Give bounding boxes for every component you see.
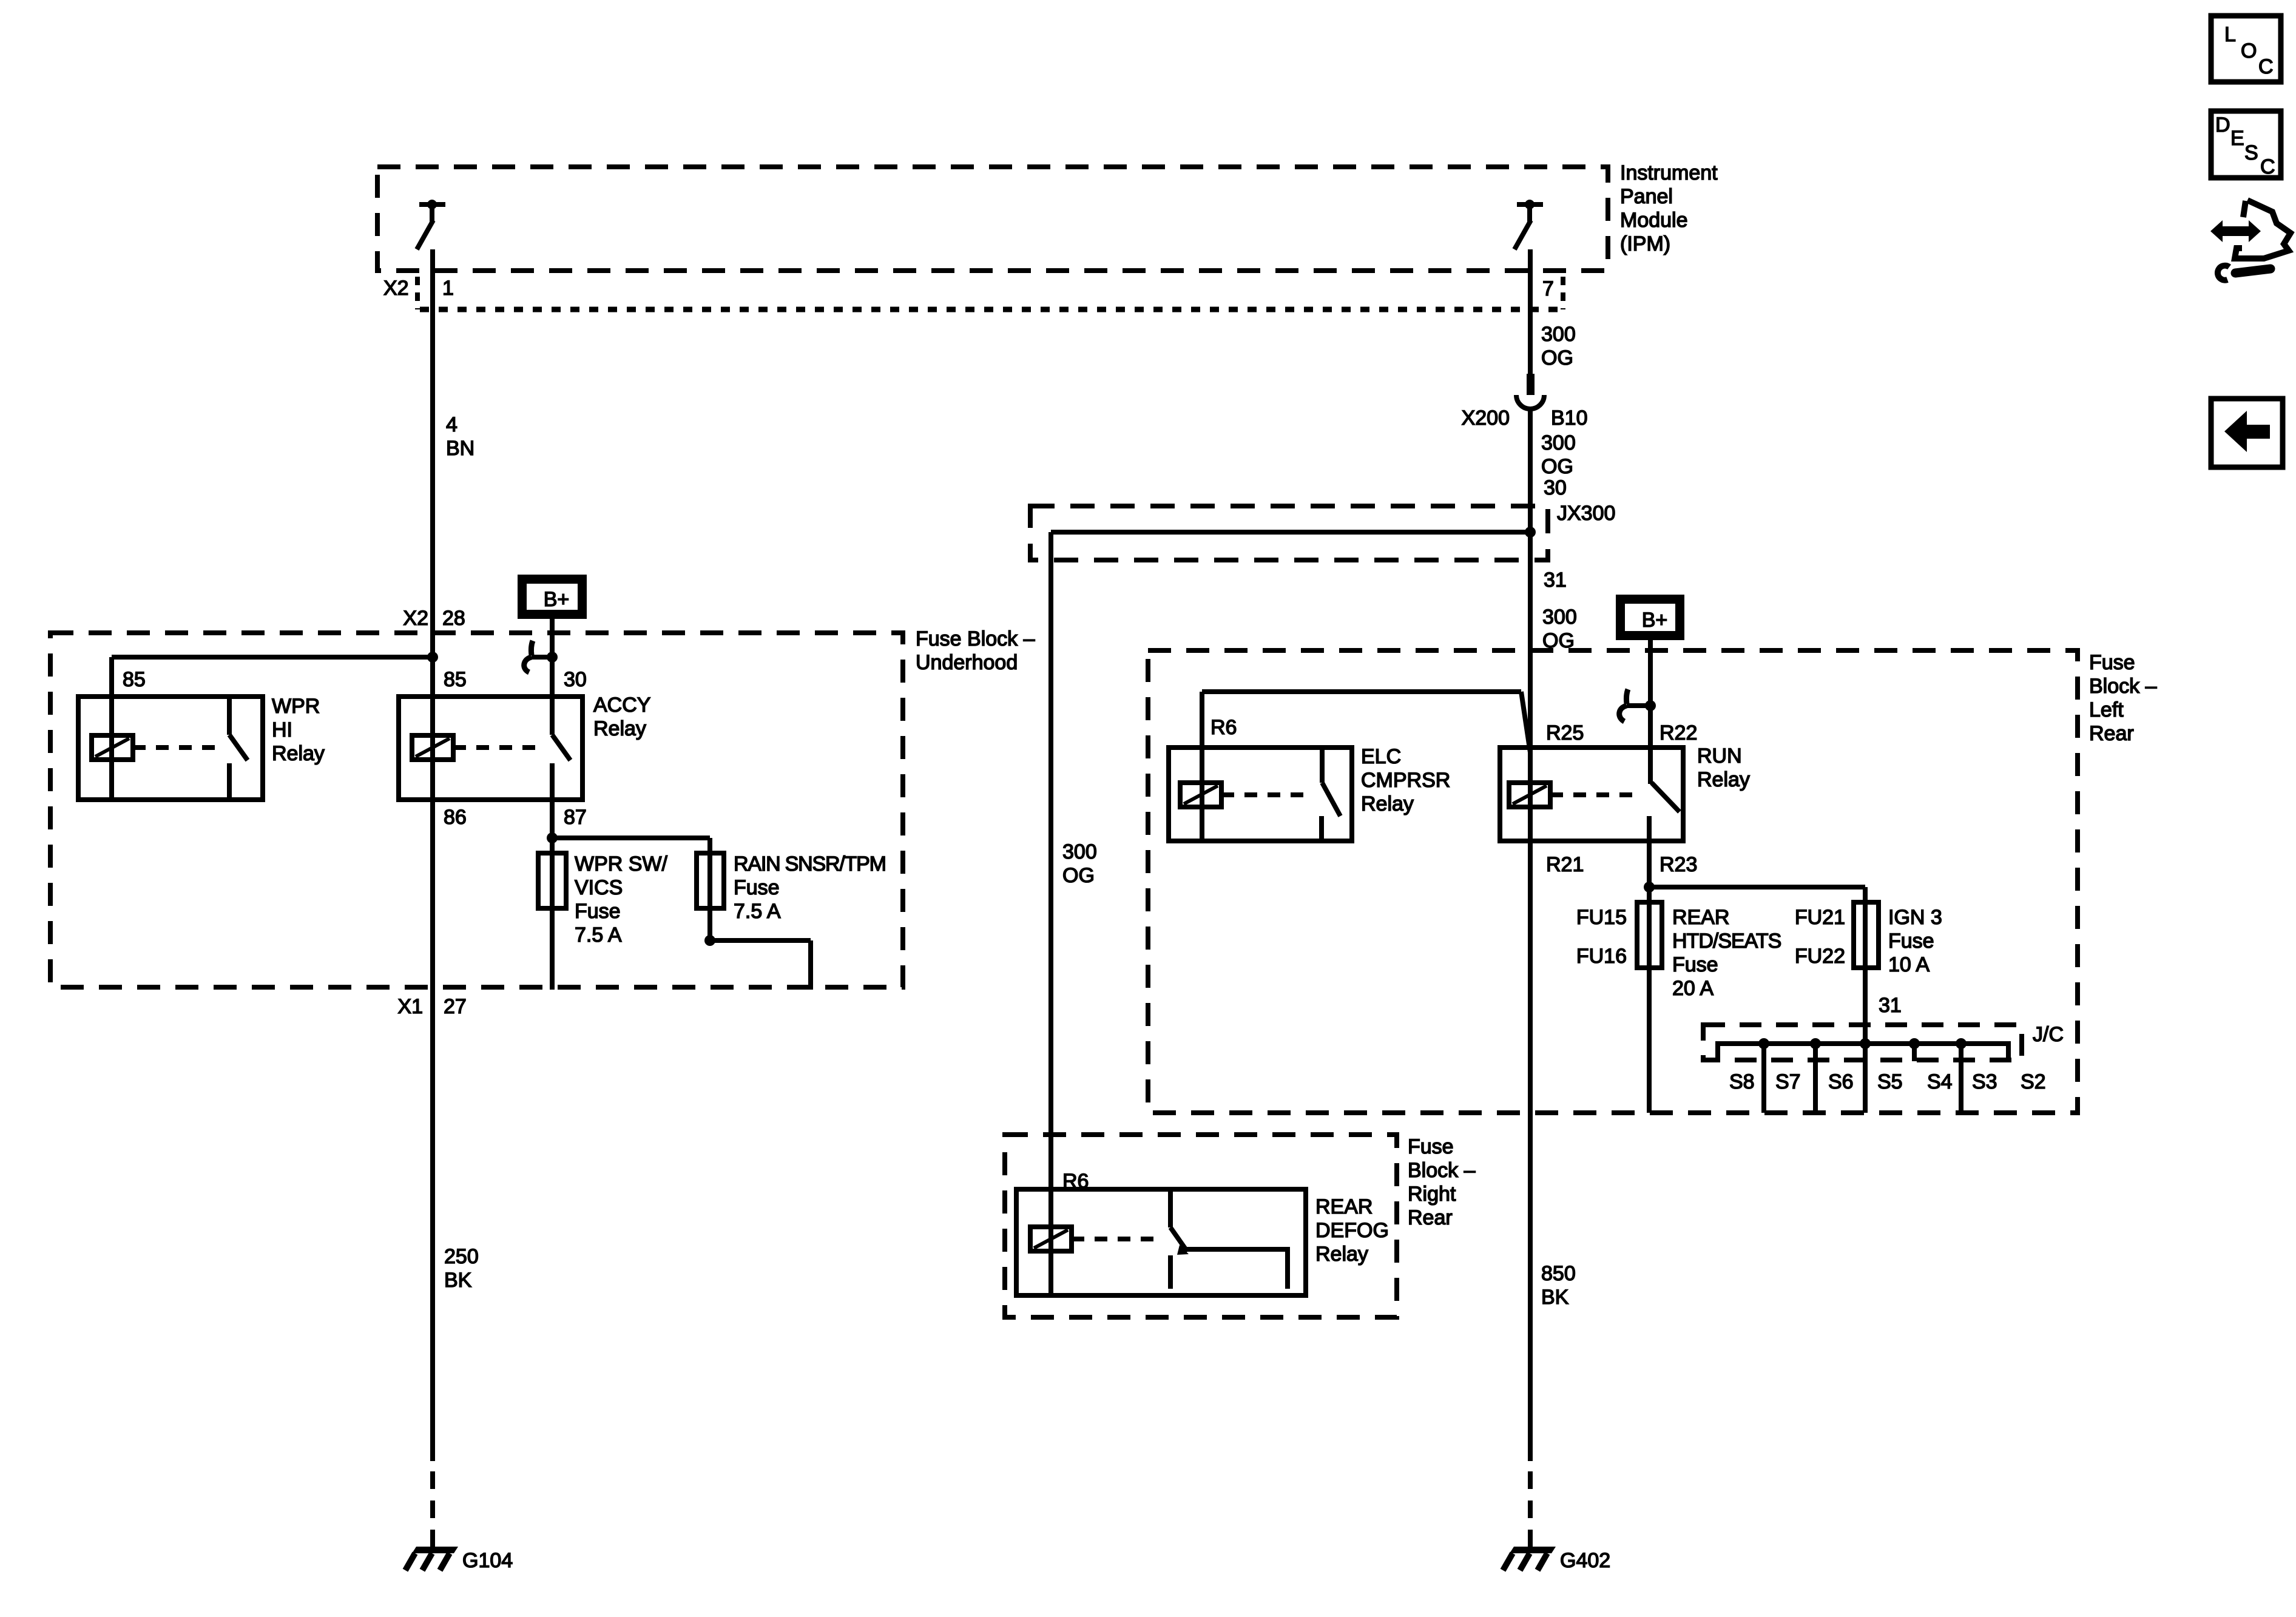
- svg-text:WPR SW/: WPR SW/: [575, 852, 668, 876]
- wire from B+ to RUN relay R22: [1648, 640, 1653, 784]
- fuse block box Fuse Block - Left Rear: [1148, 650, 2078, 1113]
- wire S8/S7 drop: [1761, 1044, 1766, 1113]
- svg-text:S4: S4: [1927, 1070, 1953, 1093]
- fuse REAR HTD/SEATS 20 A: [1637, 902, 1662, 968]
- label Instrument Panel Module (IPM): [1620, 161, 1718, 255]
- svg-text:27: 27: [444, 995, 467, 1018]
- ground G402: [1503, 1547, 1610, 1572]
- svg-text:O: O: [2241, 39, 2257, 62]
- svg-text:FU22: FU22: [1795, 945, 1845, 968]
- svg-text:REAR: REAR: [1672, 906, 1729, 929]
- svg-text:31: 31: [1879, 994, 1902, 1017]
- label WPR HI Relay: [272, 695, 325, 765]
- svg-text:Relay: Relay: [1697, 768, 1750, 791]
- label Fuse Block - Right Rear: [1408, 1135, 1476, 1229]
- junction node below RAIN fuse: [704, 935, 715, 946]
- svg-text:X2: X2: [383, 277, 409, 300]
- label REAR DEFOG Relay: [1315, 1195, 1389, 1266]
- circuit breaker hook symbol (left): [524, 641, 550, 672]
- svg-text:OG: OG: [1541, 346, 1573, 370]
- svg-text:S: S: [2244, 141, 2258, 164]
- svg-text:S7: S7: [1775, 1070, 1801, 1093]
- svg-text:B10: B10: [1551, 407, 1588, 430]
- junction node in JX300: [1525, 527, 1536, 538]
- svg-text:R25: R25: [1546, 721, 1584, 744]
- icon box LOC: [2211, 16, 2281, 82]
- svg-text:30: 30: [1544, 476, 1567, 499]
- svg-text:Right: Right: [1408, 1183, 1456, 1206]
- fuse block box Fuse Block - Underhood: [50, 633, 903, 987]
- svg-text:Panel: Panel: [1620, 185, 1673, 208]
- svg-text:S5: S5: [1877, 1070, 1903, 1093]
- svg-text:28: 28: [442, 607, 465, 630]
- svg-text:300: 300: [1062, 840, 1097, 863]
- wire 300 OG (right vertical main, from IPM pin 7): [1528, 249, 1533, 1549]
- svg-text:S3: S3: [1972, 1070, 1997, 1093]
- ground G104: [405, 1547, 513, 1572]
- junction node S7/S6: [1810, 1038, 1821, 1049]
- junction node on B+ wire: [547, 652, 558, 663]
- svg-text:VICS: VICS: [575, 876, 623, 899]
- bus bar inside J/C: [1718, 1044, 2008, 1062]
- svg-text:7.5 A: 7.5 A: [575, 923, 622, 947]
- svg-text:85: 85: [123, 668, 146, 691]
- svg-text:R22: R22: [1660, 721, 1697, 744]
- wire branch to RAIN SNSR fuse: [552, 838, 710, 940]
- junction node at pin 87: [547, 832, 558, 843]
- svg-text:4: 4: [446, 413, 458, 436]
- svg-text:10 A: 10 A: [1888, 953, 1930, 976]
- svg-text:Block –: Block –: [1408, 1159, 1476, 1182]
- svg-text:30: 30: [564, 668, 587, 691]
- svg-text:C: C: [2260, 155, 2275, 178]
- relay ACCY Relay: [399, 697, 582, 800]
- svg-text:IGN 3: IGN 3: [1888, 906, 1942, 929]
- svg-text:Block –: Block –: [2089, 675, 2157, 698]
- svg-text:E: E: [2230, 127, 2244, 150]
- svg-text:Instrument: Instrument: [1620, 161, 1718, 184]
- svg-text:G104: G104: [462, 1549, 513, 1572]
- svg-text:1: 1: [442, 277, 454, 300]
- svg-text:Relay: Relay: [1315, 1243, 1368, 1266]
- label 250 BK: [444, 1245, 479, 1292]
- junction block J/C: [1703, 1025, 2022, 1060]
- svg-text:HI: HI: [272, 718, 292, 741]
- wire S5/S4 short drop: [1912, 1044, 1917, 1061]
- svg-text:X200: X200: [1462, 407, 1510, 430]
- svg-text:85: 85: [444, 668, 467, 691]
- svg-text:31: 31: [1544, 569, 1567, 592]
- wire jog from RAIN fuse to fuse block edge: [710, 940, 811, 990]
- label WPR SW/VICS Fuse 7.5 A: [575, 852, 668, 947]
- svg-text:Fuse: Fuse: [734, 876, 780, 899]
- junction node S8/S7: [1758, 1038, 1769, 1049]
- svg-text:FU21: FU21: [1795, 906, 1845, 929]
- label REAR HTD/SEATS Fuse 20 A: [1672, 906, 1781, 1000]
- wire S4/S3 drop: [1959, 1044, 1963, 1113]
- svg-text:Relay: Relay: [593, 717, 646, 740]
- svg-text:Relay: Relay: [1361, 792, 1414, 815]
- svg-text:JX300: JX300: [1557, 502, 1615, 525]
- fuse IGN 3 10 A: [1854, 902, 1879, 968]
- svg-text:Fuse: Fuse: [2089, 651, 2135, 674]
- svg-text:R23: R23: [1660, 853, 1697, 876]
- wire branch inside JX300 to 300 OG left drop: [1051, 532, 1530, 1295]
- label Fuse Block - Underhood: [916, 627, 1035, 674]
- wire S7/S6 drop: [1813, 1044, 1818, 1113]
- svg-text:S8: S8: [1729, 1070, 1755, 1093]
- svg-text:BK: BK: [444, 1269, 472, 1292]
- junction block JX300: [1030, 506, 1548, 560]
- svg-text:Underhood: Underhood: [916, 651, 1018, 674]
- junction node S6/S5: [1860, 1038, 1871, 1049]
- wire RUN R23 down to fuses: [1647, 841, 1652, 1113]
- svg-text:(IPM): (IPM): [1620, 232, 1670, 255]
- svg-text:Fuse: Fuse: [1672, 953, 1718, 976]
- svg-text:CMPRSR: CMPRSR: [1361, 769, 1450, 792]
- svg-text:7: 7: [1542, 277, 1554, 300]
- connector separator dash X2|1: [415, 277, 420, 309]
- svg-text:S6: S6: [1828, 1070, 1854, 1093]
- svg-text:87: 87: [564, 806, 587, 829]
- icon repair instructions (arrow and wrench): [2210, 200, 2291, 280]
- fuse WPR SW/VICS 7.5 A: [538, 853, 566, 908]
- relay REAR DEFOG Relay: [1016, 1189, 1306, 1295]
- fuse block box Fuse Block - Right Rear: [1005, 1135, 1397, 1317]
- svg-text:RUN: RUN: [1697, 744, 1742, 768]
- svg-text:ELC: ELC: [1361, 745, 1401, 768]
- svg-text:300: 300: [1542, 606, 1577, 629]
- svg-text:20 A: 20 A: [1672, 977, 1714, 1000]
- junction node at R23: [1644, 882, 1655, 893]
- label ELC CMPRSR Relay: [1361, 745, 1450, 815]
- svg-text:C: C: [2258, 55, 2274, 78]
- junction node on B+ wire (right): [1645, 700, 1656, 711]
- relay ELC CMPRSR Relay: [1169, 748, 1352, 841]
- svg-text:D: D: [2215, 113, 2230, 137]
- power symbol B+ (left): [518, 575, 587, 619]
- svg-text:B+: B+: [544, 588, 570, 611]
- svg-text:G402: G402: [1560, 1549, 1610, 1572]
- fuse RAIN SNSR/TPM 7.5 A: [697, 853, 724, 908]
- svg-text:Relay: Relay: [272, 742, 325, 765]
- svg-text:Rear: Rear: [1408, 1206, 1453, 1229]
- label IGN 3 Fuse 10 A: [1888, 906, 1942, 976]
- svg-text:250: 250: [444, 1245, 479, 1268]
- svg-text:300: 300: [1541, 323, 1576, 346]
- icon box DESC: [2211, 111, 2281, 178]
- connector row dotted line below IPM: [420, 307, 1563, 312]
- wire branch to IGN3 fuse: [1649, 887, 1865, 1113]
- label Fuse Block - Left Rear: [2089, 651, 2157, 745]
- svg-text:FU16: FU16: [1576, 945, 1627, 968]
- wire branch to WPR HI relay coil: [112, 657, 433, 800]
- svg-text:7.5 A: 7.5 A: [734, 900, 781, 923]
- svg-text:S2: S2: [2021, 1070, 2046, 1093]
- svg-text:Fuse: Fuse: [1408, 1135, 1454, 1158]
- svg-text:J/C: J/C: [2033, 1023, 2064, 1046]
- svg-text:ACCY: ACCY: [593, 694, 650, 717]
- wire from B+ to ACCY relay pin 30: [550, 619, 555, 735]
- wire R6 branch from ELC coil to RUN R25: [1202, 692, 1530, 840]
- junction node S5/S4: [1909, 1038, 1920, 1049]
- junction node at 85 branch: [427, 652, 438, 663]
- svg-text:Left: Left: [2089, 698, 2124, 721]
- label 850 BK: [1541, 1262, 1576, 1309]
- svg-text:X1: X1: [397, 995, 423, 1018]
- svg-text:Fuse: Fuse: [575, 900, 621, 923]
- svg-text:Fuse Block –: Fuse Block –: [916, 627, 1035, 650]
- svg-text:Rear: Rear: [2089, 722, 2134, 745]
- svg-text:DEFOG: DEFOG: [1315, 1219, 1389, 1242]
- icon box back arrow: [2211, 399, 2283, 467]
- wire 4 BN (left vertical main): [430, 249, 435, 1549]
- circuit breaker hook symbol (right): [1619, 689, 1647, 721]
- svg-text:B+: B+: [1642, 609, 1668, 632]
- junction node S4/S3: [1956, 1038, 1967, 1049]
- svg-text:300: 300: [1541, 431, 1576, 454]
- connector X200 B10: [1516, 374, 1544, 409]
- svg-text:FU15: FU15: [1576, 906, 1627, 929]
- svg-text:Module: Module: [1620, 209, 1688, 232]
- switch inside IPM left (output driver): [417, 200, 445, 249]
- power symbol B+ (right): [1616, 595, 1684, 640]
- label 300 OG (below JX300): [1542, 606, 1577, 652]
- label 4 BN: [446, 413, 474, 460]
- svg-text:86: 86: [444, 806, 467, 829]
- svg-text:X2: X2: [403, 607, 428, 630]
- svg-text:BK: BK: [1541, 1286, 1569, 1309]
- svg-text:RAIN SNSR/TPM: RAIN SNSR/TPM: [734, 852, 886, 876]
- switch inside IPM right (output driver): [1514, 200, 1543, 249]
- svg-text:L: L: [2224, 23, 2236, 46]
- connector separator dash right of 7: [1561, 277, 1565, 309]
- module box Instrument Panel Module (IPM): [377, 167, 1608, 271]
- relay WPR HI Relay: [78, 697, 263, 800]
- wire ACCY pin 87 down through WPR SW fuse: [550, 763, 555, 990]
- svg-text:REAR: REAR: [1315, 1195, 1373, 1218]
- svg-text:R6: R6: [1210, 716, 1237, 739]
- label ACCY Relay: [593, 694, 650, 740]
- label RAIN SNSR/TPM Fuse 7.5 A: [734, 852, 886, 923]
- label RUN Relay: [1697, 744, 1750, 791]
- svg-text:WPR: WPR: [272, 695, 320, 718]
- svg-text:OG: OG: [1062, 864, 1095, 887]
- svg-text:R21: R21: [1546, 853, 1584, 876]
- label 300 OG (above X200): [1541, 323, 1576, 370]
- label 300 OG (left drop to REAR DEFOG): [1062, 840, 1097, 887]
- svg-text:HTD/SEATS: HTD/SEATS: [1672, 930, 1781, 953]
- svg-text:BN: BN: [446, 437, 474, 460]
- label 300 OG (below X200): [1541, 431, 1576, 478]
- relay RUN Relay: [1500, 748, 1683, 841]
- svg-text:Fuse: Fuse: [1888, 930, 1934, 953]
- svg-text:850: 850: [1541, 1262, 1576, 1285]
- svg-text:OG: OG: [1541, 455, 1573, 478]
